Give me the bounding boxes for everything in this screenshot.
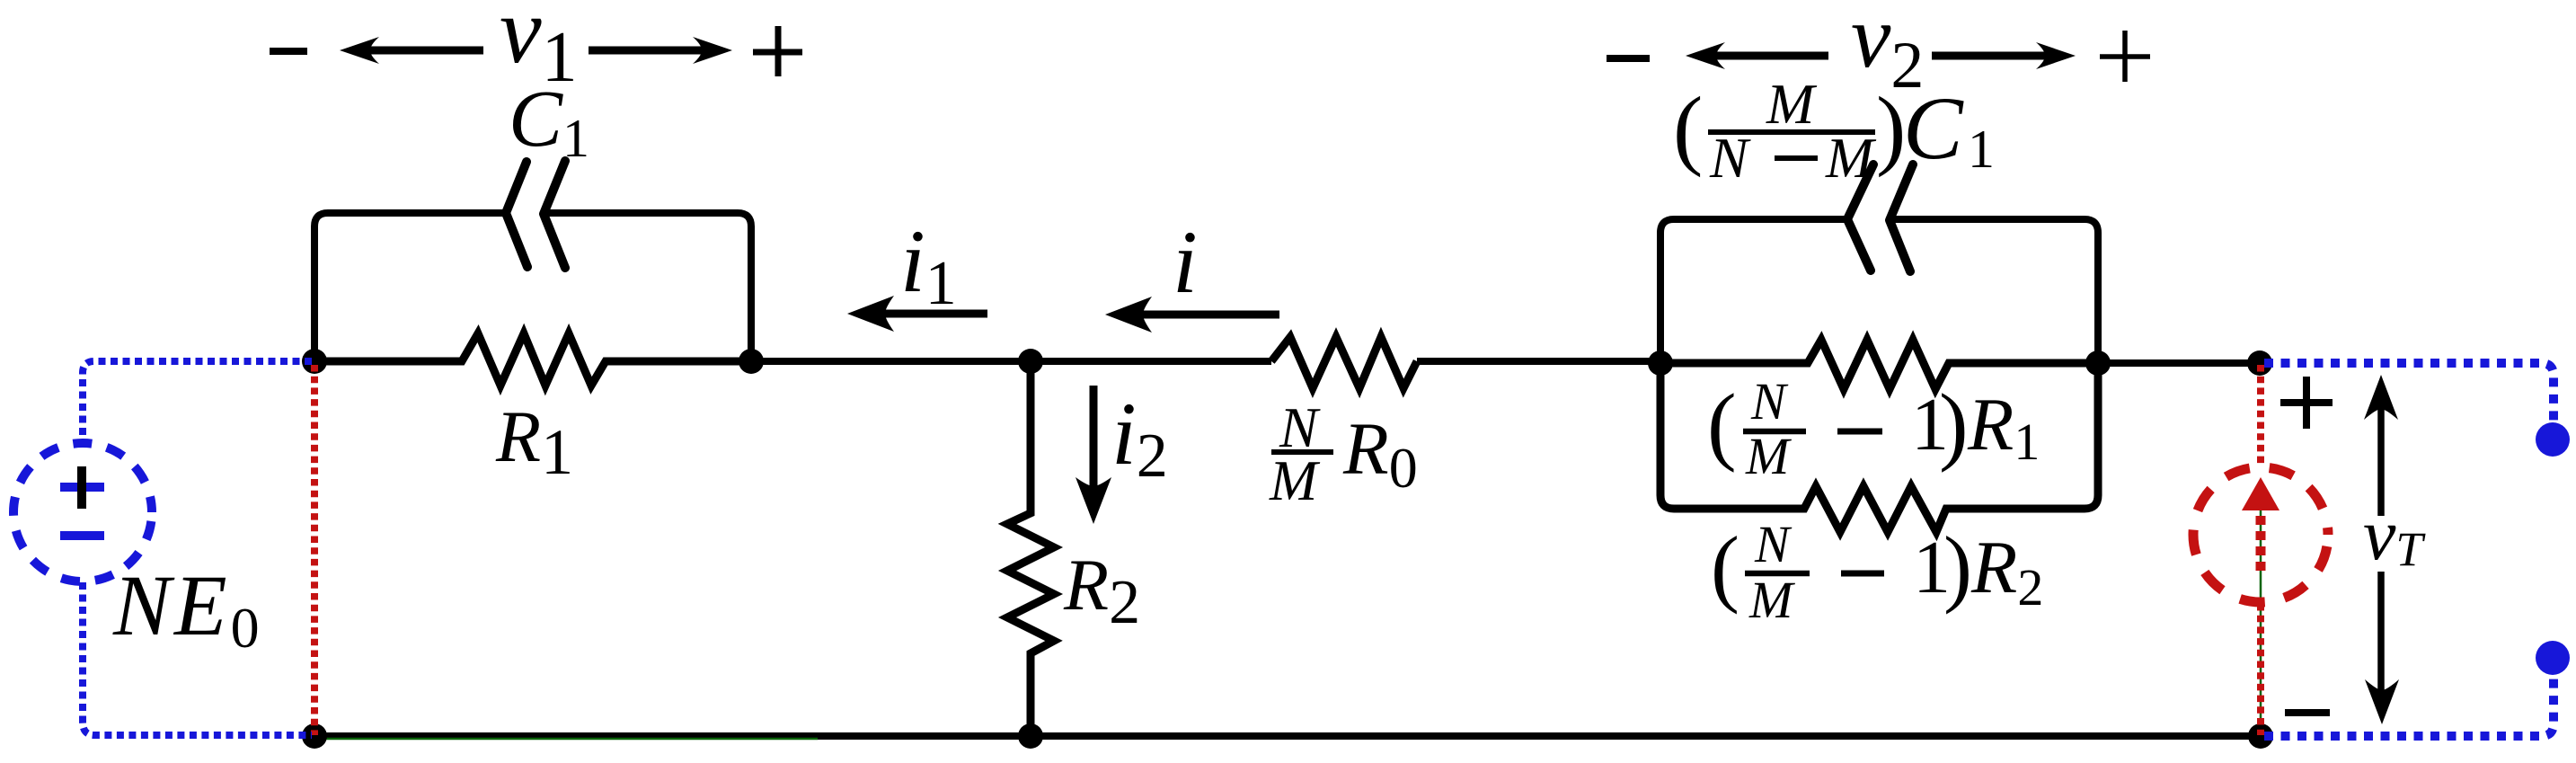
capacitor C1 top loop wire <box>314 213 751 361</box>
red dotted net right lower <box>2257 604 2264 735</box>
svg-text:M: M <box>1269 448 1321 512</box>
capacitor (M/(N-M))C1 top loop wire <box>1660 219 2098 363</box>
svg-text:R2: R2 <box>1970 526 2043 617</box>
node C middle <box>1018 349 1043 374</box>
node blue dot bottom right <box>2536 641 2570 675</box>
blue dotted right top <box>2264 363 2554 421</box>
vT arrow double <box>2377 404 2385 692</box>
node I bottom right <box>2248 723 2273 749</box>
voltage source NE0 circle <box>13 443 152 581</box>
svg-text:(: ( <box>1673 78 1703 178</box>
wire bottom rail <box>314 732 2261 740</box>
vT minus sign <box>2285 709 2330 716</box>
red dotted net left <box>311 365 318 735</box>
node A left <box>302 349 327 374</box>
resistor N/M R0 <box>1271 337 1417 388</box>
svg-text:M: M <box>1766 72 1818 136</box>
node E right parallel right <box>2085 350 2111 376</box>
node H bottom middle <box>1018 723 1043 749</box>
blue dotted loop left <box>83 361 312 735</box>
v2 right arrow <box>1932 52 2058 60</box>
i arrow <box>1123 311 1279 319</box>
v1 right arrow <box>589 47 705 55</box>
svg-text:vT: vT <box>2363 493 2426 576</box>
green wire overlay bottom rail <box>319 738 818 741</box>
i2 arrow <box>1090 386 1098 506</box>
svg-text:): ) <box>1876 78 1906 178</box>
current source arrow <box>2242 477 2279 510</box>
red dotted net right upper <box>2257 365 2264 467</box>
svg-text:i: i <box>1173 212 1198 312</box>
svg-text:i1: i1 <box>900 211 957 318</box>
vT plus sign <box>2280 377 2333 429</box>
voltage source plus sign <box>60 483 104 492</box>
node D right parallel left <box>1648 350 1673 376</box>
svg-text:C: C <box>1903 78 1964 178</box>
label vT <box>2358 516 2448 572</box>
svg-text:i2: i2 <box>1111 384 1168 491</box>
v1 left arrow <box>367 47 483 55</box>
capacitor C1 plates <box>506 161 565 268</box>
current source circle <box>2193 467 2328 602</box>
resistor (N/M-1)R2 bottom loop <box>1660 363 2098 532</box>
node G bottom left <box>302 723 327 749</box>
svg-text:NE0: NE0 <box>112 557 260 660</box>
svg-text:): ) <box>1939 377 1969 474</box>
wire top rail right of R0 <box>1417 358 1660 365</box>
wire between right parallel and far node <box>2098 359 2260 367</box>
svg-text:N: N <box>1754 515 1793 573</box>
svg-text:): ) <box>1943 519 1972 615</box>
i1 arrow <box>865 310 987 318</box>
v2 minus sign <box>1607 55 1650 62</box>
svg-text:M: M <box>1825 126 1877 190</box>
svg-text:R1: R1 <box>1967 383 2040 471</box>
v2 left arrow <box>1713 52 1828 60</box>
resistor R2 <box>1007 361 1054 736</box>
v1 minus sign <box>270 48 307 55</box>
svg-text:R0: R0 <box>1342 407 1418 500</box>
svg-text:R1: R1 <box>495 395 573 488</box>
wire top rail middle <box>751 358 1271 365</box>
svg-text:M: M <box>1748 571 1795 629</box>
svg-text:N: N <box>1750 372 1789 430</box>
svg-text:(: ( <box>1707 377 1737 474</box>
svg-text:R2: R2 <box>1063 544 1140 637</box>
node B <box>739 349 764 374</box>
svg-text:M: M <box>1745 427 1792 485</box>
v2 plus sign <box>2100 31 2150 82</box>
node F far right top <box>2247 350 2272 376</box>
svg-text:(: ( <box>1711 519 1739 615</box>
v1 plus sign <box>753 26 802 76</box>
voltage source minus sign <box>60 531 104 540</box>
green wire through current source <box>2260 500 2262 735</box>
svg-text:1: 1 <box>1968 120 1995 179</box>
capacitor (M/(N-M))C1 plates <box>1847 164 1913 271</box>
svg-text:N: N <box>1709 126 1751 190</box>
resistor (N/M-1)R1 <box>1660 340 2098 389</box>
resistor R1 <box>314 333 751 386</box>
blue dotted right bottom <box>2264 676 2554 736</box>
node blue dot top right <box>2536 422 2570 457</box>
